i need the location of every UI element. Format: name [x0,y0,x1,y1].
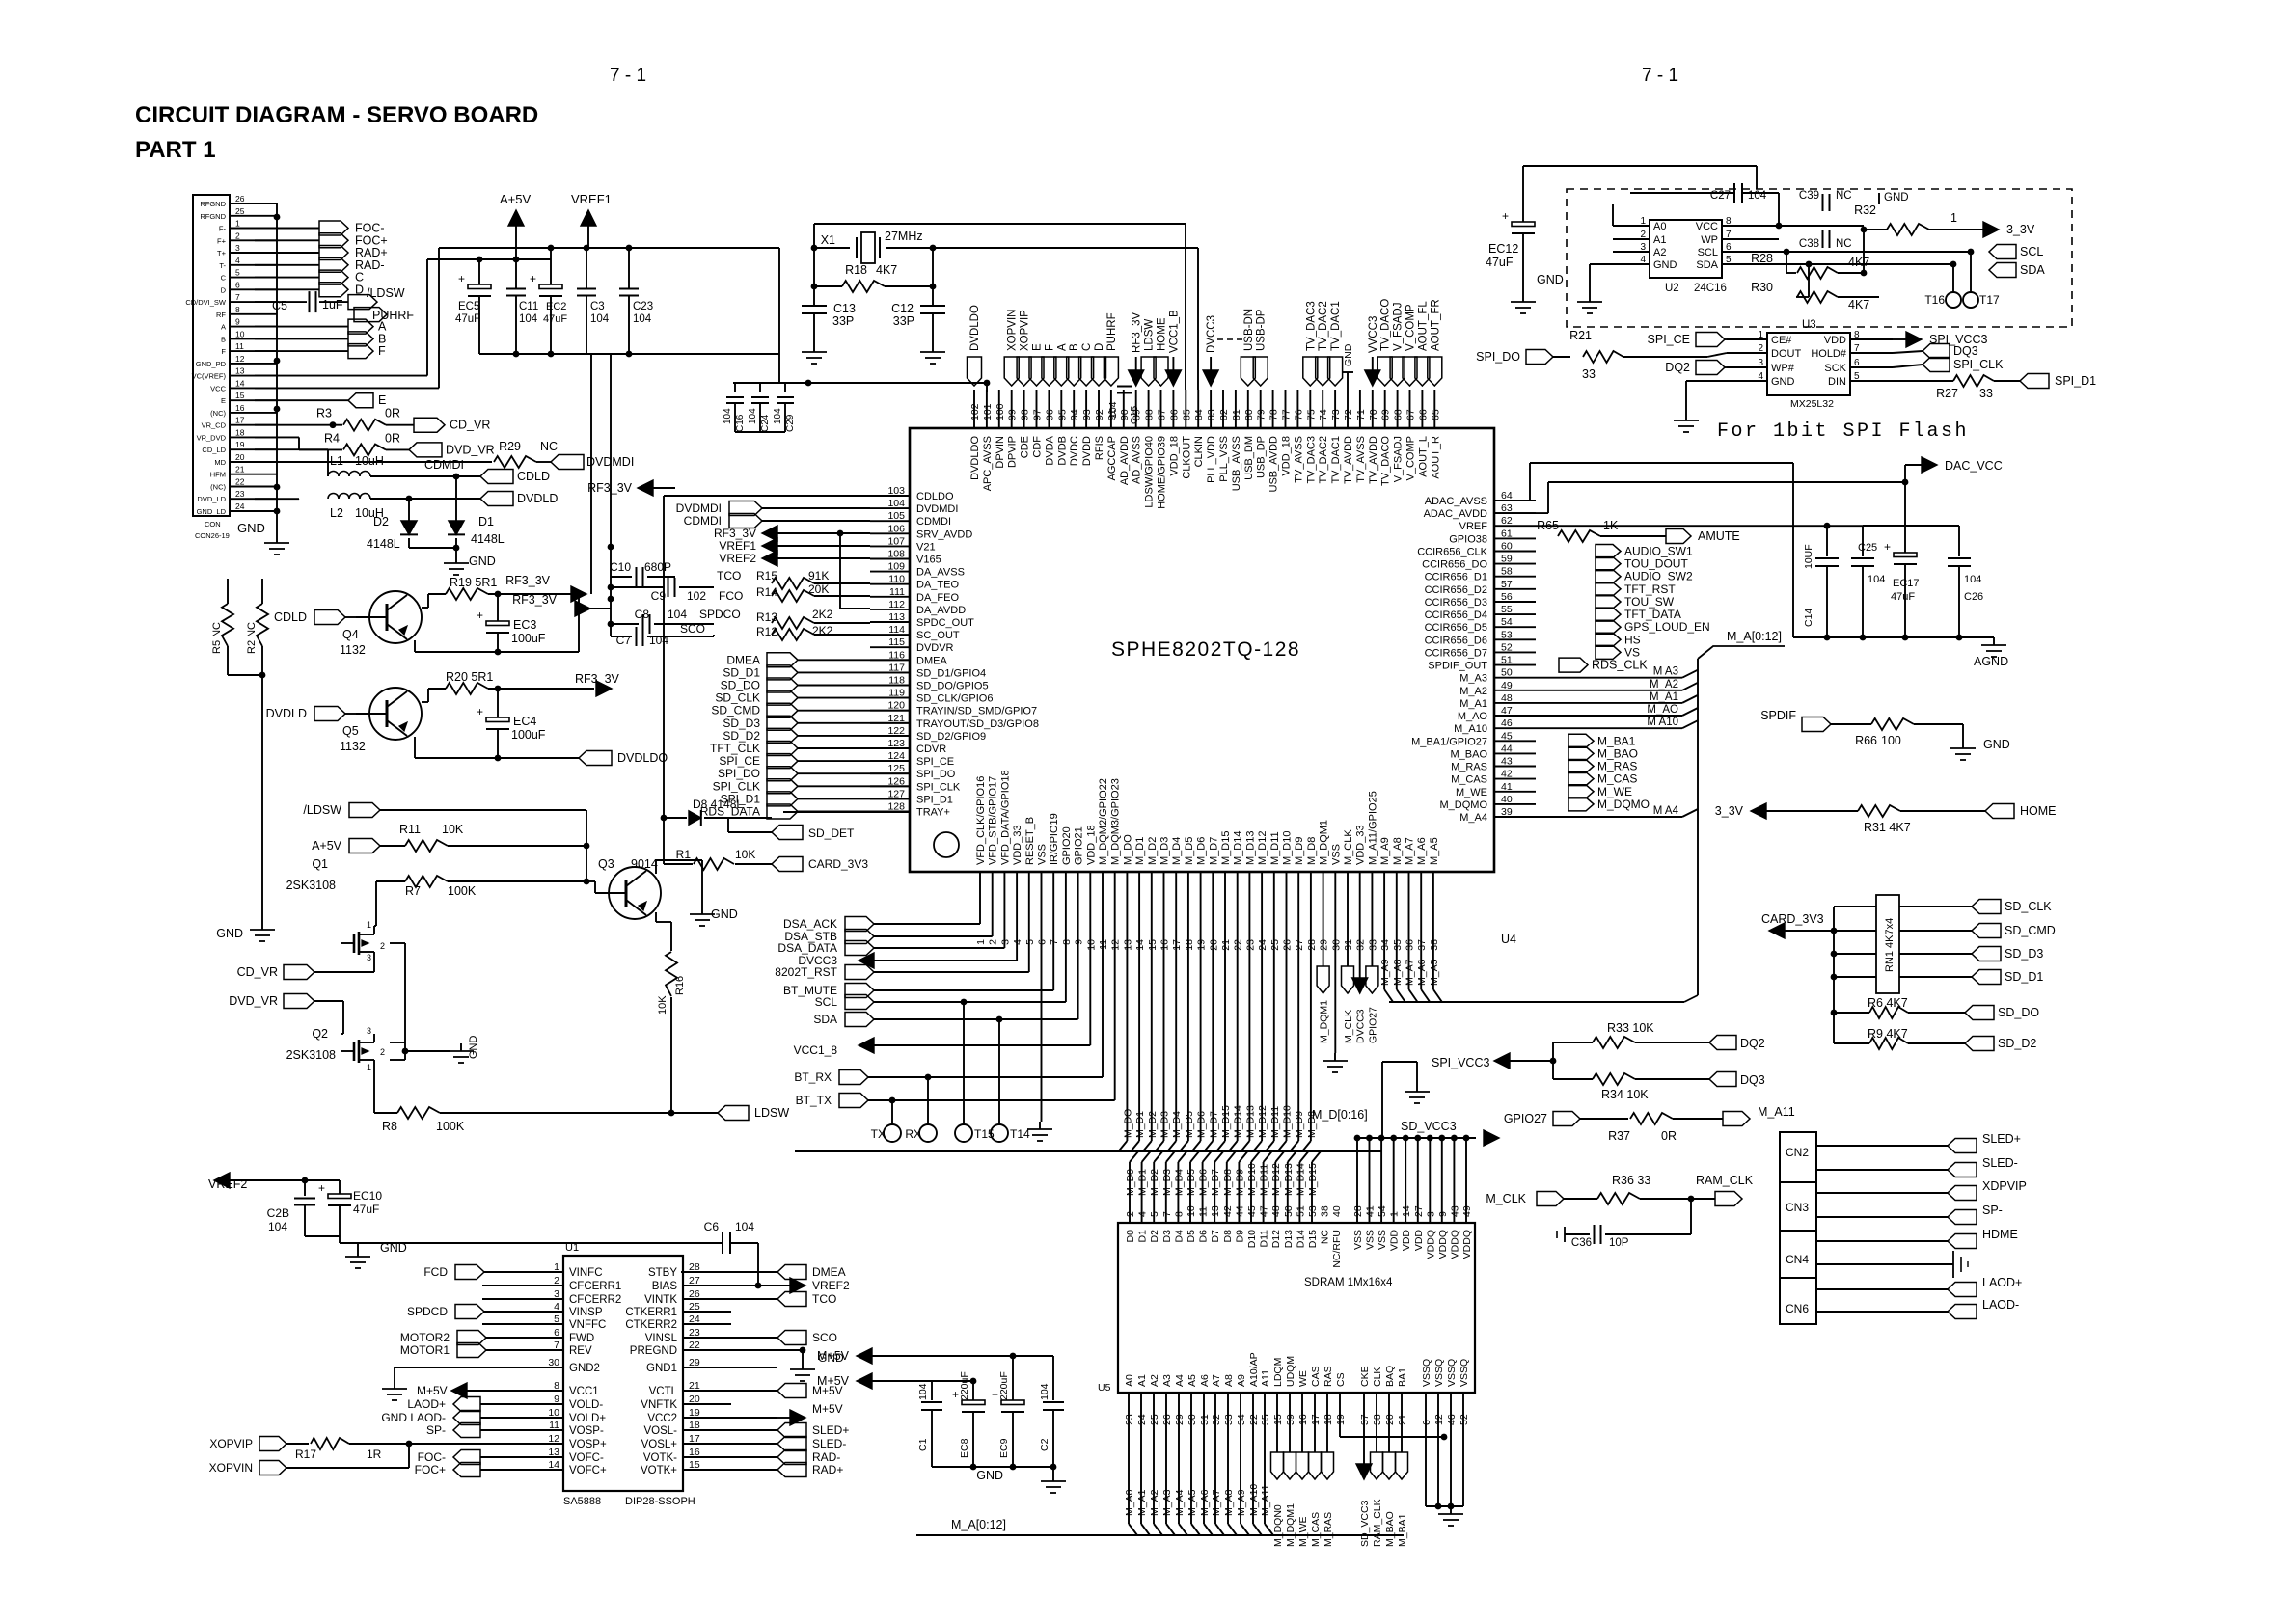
svg-text:R17: R17 [295,1448,316,1461]
power arrow DVCC3 u4 [1352,908,1368,1043]
svg-text:94: 94 [1069,409,1080,420]
svg-text:EC3: EC3 [513,618,536,632]
svg-text:CON: CON [205,520,221,528]
svg-text:CFCERR1: CFCERR1 [569,1281,621,1292]
svg-text:M_D9: M_D9 [1234,1169,1245,1196]
svg-text:17: 17 [235,416,245,425]
svg-text:22: 22 [1248,1414,1260,1425]
svg-text:68: 68 [1393,409,1405,420]
IC U2 pin 6 SCL [1698,242,1779,258]
svg-text:GND: GND [1983,738,2010,751]
svg-text:1: 1 [367,1063,371,1072]
svg-text:27: 27 [689,1275,700,1286]
IC U1 pin 20 VNFTK [641,1394,731,1411]
svg-text:DSA_ACK: DSA_ACK [783,917,837,931]
IC U5 pin 38 NC [1320,1205,1331,1244]
net flag SD_VCC3 u5 [1356,1393,1372,1547]
IC U5 pin 20 BAQ [1384,1366,1396,1425]
svg-text:17: 17 [689,1433,700,1445]
IC U4 pin 23 M_D13 [1244,831,1256,951]
ground pin6 vss [1027,1122,1052,1141]
svg-text:M_D7: M_D7 [1208,1111,1219,1138]
IC U4 refdes [1501,933,1516,946]
svg-text:SD_D2: SD_D2 [1998,1037,2036,1050]
svg-text:SC_OUT: SC_OUT [916,630,960,641]
svg-text:38: 38 [1429,939,1440,951]
net flag BT_RX [794,908,1103,1085]
IC U1 pin 16 VOTK- [643,1447,777,1464]
svg-text:81: 81 [1231,409,1242,420]
IC U4 pin 6 VSS [1037,844,1049,945]
svg-text:SPI_CLK: SPI_CLK [713,779,760,793]
svg-text:9: 9 [235,317,240,327]
svg-text:M_D12: M_D12 [1257,1105,1268,1138]
svg-text:12: 12 [1110,939,1122,951]
svg-text:MX25L32: MX25L32 [1790,398,1834,410]
wire c6 left [0,0,1,1]
svg-text:GND: GND [380,1241,407,1255]
svg-text:A9: A9 [1236,1374,1247,1387]
svg-text:2SK3108: 2SK3108 [286,1048,336,1062]
svg-text:44: 44 [1234,1205,1245,1217]
svg-text:M_D[0:16]: M_D[0:16] [1312,1108,1368,1122]
svg-text:14: 14 [548,1459,559,1471]
wire ldsw node [584,846,590,884]
svg-text:V21: V21 [916,541,936,553]
svg-text:35: 35 [1260,1414,1271,1425]
net flag M_CLK u4 [1342,908,1355,1043]
IC U4 pin 121 TRAYOUT/SD_D3/GPIO8 [870,713,1039,730]
IC U4 pin 60 CCIR656_CLK [1417,541,1536,558]
svg-text:1R: 1R [367,1448,382,1461]
svg-text:DMEA: DMEA [916,655,947,666]
svg-text:M_D0: M_D0 [1125,1169,1136,1196]
svg-text:3: 3 [1425,1211,1436,1217]
svg-text:12: 12 [235,354,245,364]
svg-text:66: 66 [1417,409,1429,420]
wire u3 gnd [1686,381,1727,413]
svg-text:10: 10 [1186,1205,1197,1217]
svg-text:88: 88 [1144,409,1156,420]
IC U2 pin 1 A0 [1613,216,1666,232]
svg-text:11: 11 [1098,939,1109,950]
IC U5 pin 45 D10 [1246,1205,1258,1248]
resistor R33 10K [1553,1021,1709,1048]
IC U1 pin 17 VOSL+ [641,1433,777,1450]
net flag /LDSW [348,286,405,310]
svg-text:D2: D2 [373,515,389,528]
svg-text:VDDQ: VDDQ [1449,1230,1460,1259]
svg-text:19: 19 [235,440,245,449]
net flag SD_DO (pin118) [721,678,910,692]
svg-text:XOPVIP: XOPVIP [209,1437,253,1450]
IC U5 pin 49 VDDQ [1461,1135,1473,1259]
wire M_D tap pin21 [1216,908,1232,1151]
svg-text:FOC-: FOC- [418,1450,446,1464]
wire SDRAM M_D15 tap [1307,1151,1321,1223]
svg-text:2SK3108: 2SK3108 [286,879,336,892]
wire SDRAM M_A1 tap [1136,1393,1150,1535]
resistor R29 NC [494,440,558,468]
connector CON1 pin 9 A [221,317,277,332]
svg-text:GND: GND [976,1469,1003,1482]
IC U1 pin 21 VCTL [649,1380,777,1397]
svg-text:+: + [477,705,483,718]
IC U4 pin 107 V21 [870,535,936,553]
IC U2 pin 4 GND [1613,255,1677,271]
svg-text:VOTK+: VOTK+ [641,1465,677,1476]
IC U1 pin 22 PREGND [630,1340,777,1357]
svg-text:83: 83 [1206,409,1217,420]
IC U4 pin 98 CDE [1020,390,1031,458]
svg-text:A7: A7 [1211,1374,1222,1387]
net flag SP- cn [1816,1204,2003,1225]
IC U5 pin 23 A0 [1124,1374,1135,1425]
svg-text:E: E [221,396,226,405]
svg-text:52: 52 [1459,1414,1470,1425]
bus label M_A[0:12] bottom [951,1518,1006,1531]
IC U5 pin 17 CAS [1310,1366,1322,1425]
svg-text:VDD: VDD [1413,1230,1425,1252]
svg-text:GND LAOD-: GND LAOD- [381,1411,446,1424]
svg-text:SCL: SCL [2020,245,2043,258]
IC U4 pin 106 SRV_AVDD [870,523,972,540]
svg-text:17: 17 [1171,939,1183,951]
IC U4 pin 8 GPIO20 [1061,826,1073,945]
svg-text:HOLD#: HOLD# [1811,348,1847,360]
svg-text:TV_AVDD: TV_AVDD [1368,436,1379,484]
svg-text:A1: A1 [1136,1374,1148,1387]
svg-text:R3: R3 [316,407,332,420]
svg-text:R20 5R1: R20 5R1 [446,670,493,684]
svg-text:VS: VS [1624,645,1640,659]
connector CON1 pin 2 F+ [217,230,277,245]
svg-text:AOUT_FL: AOUT_FL [1417,301,1429,351]
svg-text:2: 2 [554,1275,559,1286]
svg-text:BA1: BA1 [1397,1367,1408,1387]
svg-text:6: 6 [1037,939,1049,945]
svg-text:21: 21 [1397,1414,1408,1425]
wire rail B [439,245,779,252]
wire pin63 to dacvcc [1494,479,1908,513]
capacitor C26 104 [1863,526,1983,637]
wire vert from rail [357,1243,359,1249]
net flag SLED- cn [1816,1156,2018,1177]
IC U1 pin 26 VINTK [644,1288,777,1306]
svg-text:M_DO: M_DO [1122,834,1133,865]
svg-text:VREF2: VREF2 [812,1279,850,1292]
svg-text:TV_DACO: TV_DACO [1380,299,1392,351]
IC U4 pin1 circle [934,832,959,857]
power arrow VREF2 (pin108) [719,551,870,566]
svg-text:A0: A0 [1124,1374,1135,1387]
svg-text:C2: C2 [1039,1438,1050,1451]
svg-text:M_A[0:12]: M_A[0:12] [1727,630,1782,643]
IC U4 pin 110 DA_TEO [870,574,959,591]
resistor R5 NC vertical [211,579,233,675]
IC U4 pin 87 HOME/GPIO39 [1157,390,1168,509]
IC U4 pin 112 DA_AVDD [870,599,966,616]
svg-text:VREF: VREF [1459,521,1488,532]
svg-text:GND: GND [711,907,738,921]
svg-text:M_D15: M_D15 [1220,1105,1232,1138]
svg-text:VOLD+: VOLD+ [569,1413,606,1424]
svg-text:4K7: 4K7 [876,263,897,277]
svg-text:69: 69 [1380,409,1392,420]
svg-text:VSSQ: VSSQ [1421,1359,1432,1387]
svg-text:EC8: EC8 [959,1438,970,1458]
svg-text:R2 NC: R2 NC [246,622,258,654]
net flag AOUT_FR (pin65) [1428,299,1442,386]
svg-text:VCC: VCC [1696,221,1718,232]
resistor R3 0R [307,407,414,431]
wire SDRAM M_A11 tap [1260,1393,1273,1535]
svg-text:DVDMDI: DVDMDI [916,503,958,515]
inductor L1 10uH [328,454,480,479]
IC U1 pin 2 CFCERR1 [515,1275,621,1292]
wire gnd top u2 [1879,192,1909,204]
svg-text:M_DQN0: M_DQN0 [1272,1504,1284,1547]
svg-text:M_A3: M_A3 [1459,673,1487,685]
power arrow M+5V u1 vcc2 [777,1402,843,1425]
svg-text:34: 34 [1379,939,1391,951]
svg-text:RDS_CLK: RDS_CLK [1592,659,1648,672]
svg-text:17: 17 [1310,1414,1322,1425]
IC U1 pin 30 GND2 [515,1357,600,1374]
svg-text:2: 2 [380,1047,385,1057]
svg-text:3: 3 [554,1288,559,1300]
capacitor C13 33P [802,286,856,344]
svg-text:C12: C12 [891,302,914,315]
svg-text:115: 115 [888,636,905,648]
capacitor C14 10UF [1803,526,1839,637]
ground U2 [1577,294,1602,313]
svg-text:110: 110 [888,574,905,585]
svg-text:2: 2 [1758,343,1763,354]
svg-text:22: 22 [689,1340,700,1351]
net flag DVDLDO q5 [579,751,668,766]
IC U4 pin 25 M_D11 [1269,831,1281,950]
bus M_A vertical [1697,659,1699,995]
svg-text:SPI_D1: SPI_D1 [2055,374,2096,388]
net flag 8202T_RST [775,908,1029,980]
svg-text:C8: C8 [635,608,650,621]
svg-text:SD_D3: SD_D3 [2005,947,2043,961]
wire SDRAM M_D9 tap [1234,1151,1247,1223]
net flag DSA_STB [784,908,992,944]
svg-text:79: 79 [1256,409,1268,420]
svg-text:29: 29 [1319,939,1330,951]
net flag CD_VR [414,418,490,432]
IC U5 pin 2 D0 [1125,1211,1136,1242]
wire M_D tap pin17 [1167,908,1183,1151]
wire q2 source [374,1060,397,1113]
IC U4 pin 64 ADAC_AVSS [1425,490,1536,507]
svg-text:TV_DAC2: TV_DAC2 [1318,436,1329,484]
svg-text:VCTL: VCTL [649,1386,678,1397]
svg-text:CCIR656_D6: CCIR656_D6 [1425,635,1487,646]
net flag M_BA1 u5 [1396,1393,1409,1547]
svg-text:15: 15 [1147,939,1159,951]
svg-text:M_D2: M_D2 [1147,1111,1159,1138]
svg-text:DVDA: DVDA [1044,435,1055,465]
svg-text:M_A7: M_A7 [1405,837,1416,865]
net flag HOME [1985,804,2057,819]
IC U5 pin 34 A9 [1236,1374,1247,1425]
connector CON1 pin 24 GND_LD [197,501,277,516]
svg-text:56: 56 [1501,591,1513,603]
svg-text:WP#: WP# [1771,363,1795,374]
svg-text:M_A1: M_A1 [1459,698,1487,710]
net flag B (pin94) [1067,343,1081,386]
svg-text:101: 101 [982,403,994,420]
svg-text:T17: T17 [1979,293,2000,307]
svg-text:3_3V: 3_3V [2006,223,2035,236]
svg-text:9: 9 [554,1394,559,1405]
svg-text:15: 15 [1272,1414,1284,1425]
svg-text:D8 4148L: D8 4148L [693,798,743,811]
IC U5 pin 28 VSS [1352,1135,1364,1250]
svg-text:VINFC: VINFC [569,1267,603,1279]
svg-text:3: 3 [367,1026,371,1036]
ground flag IGND (pin72) [1342,343,1354,390]
testpoint T14 [991,1016,1030,1142]
IC U4 pin 100 DPVIN [995,390,1006,469]
svg-text:M_D14: M_D14 [1233,831,1244,865]
svg-text:C: C [221,274,227,283]
capacitor C2 104 [1039,1356,1064,1467]
IC U4 pin 92 RFIS [1094,390,1105,460]
svg-text:A1: A1 [1653,234,1666,246]
resistor R1 10K [664,818,772,870]
svg-text:DIN: DIN [1828,376,1846,388]
svg-text:HOME: HOME [2020,804,2057,818]
svg-text:104: 104 [590,313,610,325]
svg-text:TFT_RST: TFT_RST [1624,582,1676,596]
net flag V_FSADJ (pin68) [1390,303,1405,387]
IC U4 pin 27 M_D9 [1294,837,1305,951]
resistor R15 91K [756,569,870,589]
svg-text:DA_AVSS: DA_AVSS [916,567,965,579]
svg-text:10: 10 [548,1407,559,1419]
net flag SD_DET [704,818,855,840]
svg-text:15: 15 [689,1459,700,1471]
svg-text:VFD_STB/GPIO17: VFD_STB/GPIO17 [988,776,999,865]
svg-text:M_A10: M_A10 [1248,1484,1260,1516]
wire m5 rail [340,1242,723,1244]
IC U5 label SDRAM 1Mx16x4 [1304,1277,1393,1288]
svg-text:XDPVIP: XDPVIP [1982,1179,2027,1193]
net flag BT_TX [796,908,1115,1108]
capacitor EC12 47uF [1486,166,1535,294]
svg-text:8: 8 [235,305,240,314]
svg-text:C3: C3 [590,301,605,312]
bus tap M_A5 [1429,908,1442,1002]
svg-text:C: C [1081,343,1093,351]
svg-text:4: 4 [1758,371,1763,382]
IC U4 pin 124 SPI_CE [870,750,954,768]
svg-text:C13: C13 [833,302,856,315]
svg-text:SA5888: SA5888 [563,1496,601,1507]
net flag DQ3 r34 [1709,1072,1765,1088]
net flag SPI_DO [1476,350,1570,365]
svg-text:45: 45 [1246,1205,1258,1217]
svg-text:47: 47 [1259,1205,1270,1217]
svg-text:ADAC_AVDD: ADAC_AVDD [1424,508,1487,520]
svg-text:R16: R16 [674,976,686,995]
connector CN6 body [1780,1278,1816,1324]
svg-text:6: 6 [554,1327,559,1339]
svg-text:1132: 1132 [340,643,366,657]
svg-text:TV_DACO: TV_DACO [1380,436,1392,486]
connector CON1 pin 12 GND_PD [196,354,277,368]
svg-text:EC9: EC9 [998,1438,1010,1458]
resistor R66 100 [1855,718,1963,747]
svg-text:14: 14 [1401,1205,1412,1217]
svg-text:FWD: FWD [569,1333,594,1344]
IC U1 pin 25 CTKERR1 [625,1301,731,1318]
power arrow RF3_3V q4 [505,354,591,602]
wire pin64 to agnd rail [1494,463,1793,637]
svg-text:7: 7 [1161,1211,1173,1217]
IC U4 pin 33 M_A11/GPIO25 [1367,791,1378,951]
IC U1 pin 19 VCC2 [647,1407,777,1424]
IC U4 pin 70 TV_AVDD [1368,390,1379,484]
IC U4 pin 125 SPI_DO [870,763,956,780]
wire r33 r34 junction [1552,1042,1554,1079]
IC U1 pin 24 CTKERR2 [625,1313,731,1331]
svg-text:M_D4: M_D4 [1173,1169,1185,1196]
net flag TOU_DOUT [1596,557,1688,571]
IC U2 24C16 body [1650,220,1722,278]
capacitor C11 104 [506,259,538,354]
svg-text:M_D9: M_D9 [1294,1111,1305,1138]
gnd c36 [1557,1227,1565,1242]
svg-text:NC: NC [540,440,558,453]
wire q4 emitter [415,594,579,655]
IC U4 pin 72 TV_AVDD [1343,390,1354,484]
wire MD row [255,461,492,463]
svg-text:87: 87 [1157,409,1168,420]
svg-text:DVDLD: DVDLD [517,492,558,505]
svg-text:+: + [952,1388,959,1401]
label SPDCO SCO [680,608,741,636]
net flag LAOD- cn [1816,1298,2019,1319]
svg-text:23: 23 [1244,939,1256,951]
wire connector bus vertical [274,203,281,535]
svg-text:4148L: 4148L [367,537,400,551]
label TCO FCO [717,569,743,603]
svg-text:100uF: 100uF [511,728,546,742]
net flag XOPVIN [209,1444,409,1475]
resistor R27 33 [1893,375,2020,400]
svg-text:220uF: 220uF [998,1371,1010,1400]
connector CON1 pin 17 VR_CD [202,416,277,430]
svg-text:19: 19 [1335,1414,1347,1425]
svg-text:R66: R66 [1855,734,1877,747]
svg-text:CN3: CN3 [1786,1201,1809,1214]
net flag D [255,283,364,297]
svg-text:D5: D5 [1186,1230,1197,1243]
svg-text:VOSL-: VOSL- [643,1425,677,1437]
svg-text:GND: GND [1537,273,1564,286]
wire sda row [1779,261,1956,268]
connector CON1 pin 19 CD_LD [202,440,277,454]
wire SDRAM M_D6 tap [1198,1151,1212,1223]
IC U3 pin 6 SCK [1824,358,1893,374]
svg-text:CDLD: CDLD [517,470,550,483]
svg-text:C14: C14 [1803,609,1814,627]
